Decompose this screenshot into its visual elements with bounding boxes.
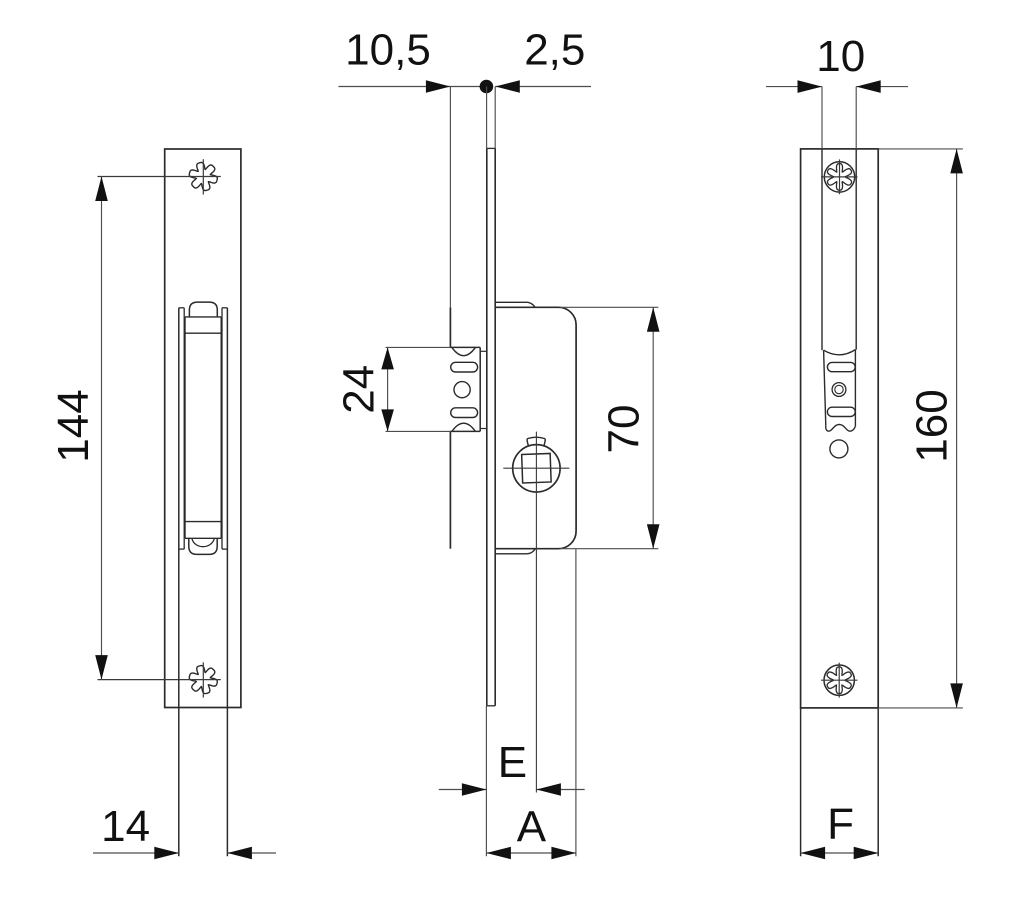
svg-text:10,5: 10,5	[345, 25, 431, 74]
right view: roller left flank	[824, 350, 826, 426]
dimension 160: dimension line	[956, 149, 958, 708]
middle view: spindle hub circle	[513, 445, 560, 492]
right view: bottom screw outer circle	[824, 665, 854, 695]
right view: lower stem right edge	[877, 708, 879, 856]
dimension A: left arrowhead	[486, 847, 511, 860]
left view: latch bolt body sides	[185, 317, 221, 538]
left view: bottom screw vertical centerline	[202, 662, 204, 697]
dimension 14: dimension line right segment	[227, 852, 276, 854]
middle view: case lid top edge	[495, 302, 535, 307]
dimension E: dimension line left segment	[439, 789, 487, 791]
middle view: housing-to-faceplate ticks	[480, 351, 487, 428]
extension line: faceplate left edge up to dot	[486, 87, 488, 149]
dimension 10,5: arrowhead	[426, 80, 451, 93]
dimension 160: bottom arrowhead	[950, 683, 963, 708]
dimension A: label	[517, 802, 547, 851]
left view: top torx screw	[189, 162, 217, 190]
svg-text:14: 14	[101, 802, 150, 851]
svg-text:24: 24	[335, 365, 384, 414]
middle view: roller axle circle	[454, 382, 470, 398]
middle view: faceplate edge-on (right line)	[487, 148, 495, 705]
right view: roller lower capsule	[827, 407, 855, 416]
dimension 10,5: dimension line	[339, 86, 487, 88]
dimension 160: label	[907, 389, 956, 462]
shared dimension dot	[480, 80, 494, 94]
dimension 144: dimension line	[101, 177, 103, 680]
right view: roller right flank	[854, 350, 856, 427]
dimension 24: label	[335, 365, 384, 414]
dimension 10: extension lines above plate	[822, 87, 856, 149]
svg-text:E: E	[498, 738, 527, 787]
dimension 144: top arrowhead	[95, 177, 108, 202]
dimension 24: top arrowhead	[381, 347, 394, 369]
dimension E: left arrowhead	[462, 783, 487, 796]
middle view: case lid bottom edge	[495, 549, 535, 554]
svg-text:70: 70	[599, 405, 648, 454]
extension line: case left edge up to dimension	[449, 87, 451, 308]
dimension E: right arrowhead	[536, 783, 561, 796]
middle view: lower roller capsule	[451, 408, 478, 418]
dimension 144: bottom arrowhead	[95, 655, 108, 680]
left view: bottom torx screw	[189, 666, 217, 694]
extension line: faceplate left edge down to A dimension	[485, 706, 487, 856]
dimension A: right arrowhead	[551, 847, 576, 860]
dimension 160: bottom extension line	[878, 707, 963, 709]
dimension 14: left arrowhead	[154, 847, 179, 860]
left view: bottom screw horizontal centerline / 144 extension line	[98, 679, 221, 681]
svg-text:2,5: 2,5	[524, 25, 585, 74]
right view: groove left edge	[821, 149, 823, 350]
right view: hole below roller	[830, 440, 848, 458]
dimension F: right arrowhead	[854, 847, 879, 860]
right view: bottom screw centerlines	[821, 663, 858, 698]
left view: top screw horizontal centerline / 144 extension line	[98, 176, 221, 178]
svg-text:F: F	[827, 800, 854, 849]
left view: slot outer edges / lower stem edges	[179, 308, 228, 856]
dimension 24: dimension line	[387, 347, 389, 431]
left view: latch lower block	[185, 522, 221, 539]
left view: keeper plate outline	[165, 149, 241, 708]
middle view: lock case left edge (upper segment)	[449, 307, 451, 347]
dimension A: dimension line	[486, 852, 576, 854]
middle view: faceplate edge-on (left line)	[486, 148, 488, 705]
dimension E: dimension line right segment	[536, 789, 584, 791]
middle view: lock case body (rounded right side)	[495, 307, 576, 548]
dimension 70: top arrowhead	[647, 307, 660, 332]
left view: latch bolt head (rounded top)	[189, 302, 217, 317]
dimension 144: label	[49, 389, 98, 462]
middle view: spindle top notch	[527, 437, 545, 446]
dimension 70: label	[599, 405, 648, 454]
dimension 160: top extension line	[878, 148, 963, 150]
dimension F: label	[827, 800, 854, 849]
left view: top screw vertical centerline	[202, 159, 204, 194]
middle view: spindle vertical centerline / E extension	[535, 432, 537, 793]
middle view: bottom roller arc	[452, 423, 475, 431]
middle view: roller housing bottom edge / 24 extension	[386, 430, 481, 432]
middle view: roller housing top edge / 24 extension	[386, 346, 481, 348]
svg-text:160: 160	[907, 389, 956, 462]
middle view: upper roller capsule	[451, 362, 478, 372]
right view: groove right edge	[855, 149, 857, 350]
right view: top screw torx recess	[827, 164, 851, 191]
svg-text:10: 10	[816, 32, 865, 81]
right view: top screw outer circle	[824, 162, 854, 192]
dimension F: dimension line	[801, 852, 879, 854]
dimension 70: bottom extension line	[560, 548, 658, 550]
right view: plate outline	[801, 149, 879, 708]
dimension 70: bottom arrowhead	[647, 524, 660, 549]
dimension 14: right arrowhead	[227, 847, 252, 860]
dimension F: left arrowhead	[801, 847, 826, 860]
dimension 160: top arrowhead	[950, 149, 963, 174]
left view: latch upper block	[185, 317, 221, 333]
right view: roller axle ring inner	[835, 385, 843, 393]
left view: latch bolt foot (rounded bottom)	[189, 538, 217, 554]
middle view: spindle square hole	[522, 453, 551, 482]
dimension 14: dimension line left segment	[93, 852, 179, 854]
dimension 10: right arrowhead	[856, 80, 881, 93]
svg-text:A: A	[517, 802, 547, 851]
dimension 14: label	[101, 802, 150, 851]
right view: bottom screw torx recess	[827, 667, 851, 694]
middle view: top roller arc	[452, 348, 475, 356]
dimension 10: left arrowhead	[798, 80, 823, 93]
right view: lower stem left edge	[800, 708, 802, 856]
dimension 10: dimension line left segment	[766, 86, 822, 88]
middle view: roller housing right edge	[479, 347, 481, 431]
dimension 2,5: label	[524, 25, 585, 74]
middle view: lock case left edge (lower segment)	[449, 431, 451, 548]
right view: roller axle ring outer	[832, 383, 846, 397]
dimension 2,5: arrowhead	[495, 80, 520, 93]
right view: top screw centerlines	[821, 159, 858, 194]
right view: roller top concave edge	[824, 350, 856, 355]
extension line: case right edge down to A dimension	[575, 549, 577, 857]
dimension 24: bottom arrowhead	[381, 409, 394, 431]
right view: roller upper capsule	[827, 362, 855, 371]
extension line: faceplate right edge up to arrow	[494, 87, 496, 149]
dimension 10: label	[816, 32, 865, 81]
dimension 70: dimension line	[652, 307, 654, 548]
dimension 10,5: label	[345, 25, 431, 74]
dimension 70: top extension line	[560, 306, 658, 308]
left view: slot inner edges	[179, 308, 228, 549]
svg-text:144: 144	[49, 389, 98, 462]
dimension 2,5: dimension line	[495, 86, 591, 88]
dimension 10: dimension line right segment	[856, 86, 908, 88]
right view: roller bottom concave edge	[826, 424, 856, 431]
middle view: spindle horizontal centerline	[503, 467, 569, 469]
dimension E: label	[498, 738, 527, 787]
